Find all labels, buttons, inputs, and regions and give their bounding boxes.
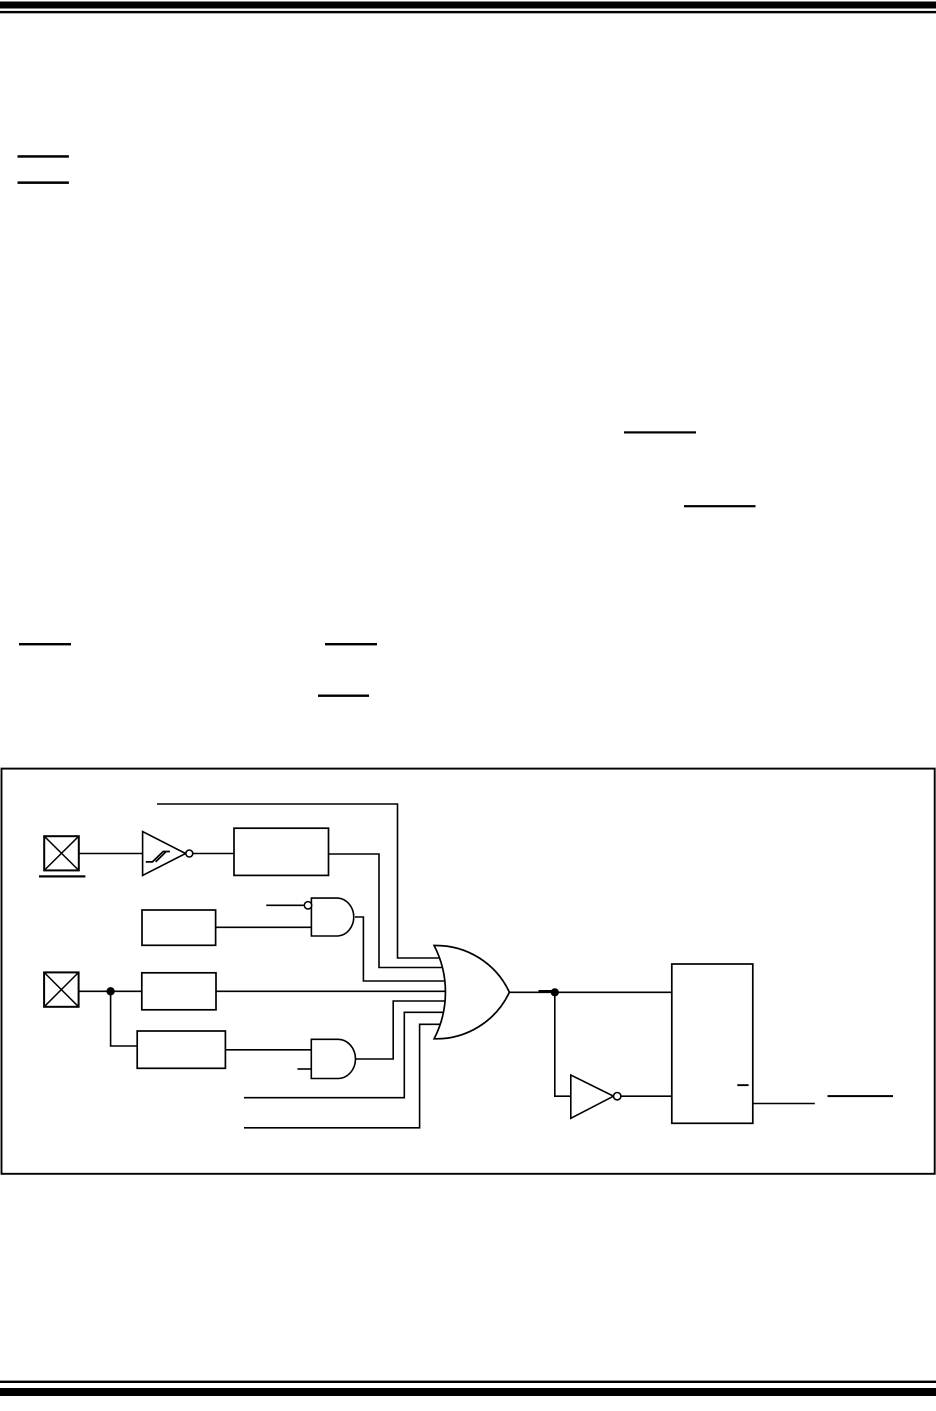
OR gate — [434, 945, 509, 1038]
wire: lower net 1 to OR input 6 — [244, 1012, 450, 1097]
wire: Schmitt output to filter block — [193, 853, 234, 855]
wire: filter block to OR input 2 — [329, 854, 451, 968]
wire: MCLR pad to Schmitt input — [79, 853, 143, 855]
flip-flop: chip reset latch — [672, 964, 753, 1123]
overline (body signal name) — [18, 181, 69, 184]
figure frame — [2, 769, 935, 1174]
NAND gate (inverted top input) — [311, 898, 353, 936]
wire: NAND inverted input A — [266, 904, 304, 906]
wire: OR output to flip-flop S input — [510, 991, 672, 993]
AND gate — [311, 1039, 355, 1078]
wire: flip-flop Q output — [753, 1103, 815, 1105]
overline (Q-bar label inside flip-flop) — [737, 1084, 748, 1086]
footer rule — [0, 1381, 936, 1383]
wire: BOR block to AND input A — [225, 1049, 311, 1051]
wire: block 2 to NAND input B — [216, 926, 312, 928]
wire: junction down to inverter input — [555, 992, 571, 1096]
wire: inverter output to flip-flop R input — [621, 1095, 672, 1097]
wire: top net into OR input 1 — [157, 804, 450, 958]
header thick bar — [0, 2, 936, 9]
block: MCLR filter — [234, 828, 329, 875]
inverter U2 — [571, 1075, 621, 1118]
block: power-on reset — [142, 973, 216, 1010]
overline (note signal name left) — [19, 643, 71, 645]
overline (net label on OR output wire) — [539, 990, 552, 992]
block: brown-out reset — [137, 1031, 225, 1068]
footer thick bar — [0, 1388, 936, 1396]
overline (signal name, paragraph 2) — [624, 431, 696, 433]
junction dot at VDD net — [106, 987, 114, 995]
wire: AND output to OR input 5 — [356, 1001, 450, 1059]
block: sleep/WDT module — [142, 910, 216, 945]
overline (note signal name, line 2) — [318, 695, 369, 697]
wire: NAND output to OR input 3 — [355, 917, 450, 981]
overline (MCLR pad label) — [39, 875, 85, 877]
wire: AND input B stub — [297, 1068, 311, 1070]
pad MCLR (pin symbol) — [44, 836, 79, 870]
junction dot at OR output — [551, 988, 559, 996]
header rule — [0, 11, 936, 13]
wire: junction down to BOR block — [111, 991, 138, 1046]
wire: VDD pad through POR block to OR input 4 — [79, 990, 450, 992]
hysteresis glyph inside U1 — [146, 852, 170, 862]
pad VDD (pin symbol) — [44, 972, 79, 1006]
overline (heading signal name) — [18, 155, 69, 158]
wire: lower net 2 to OR input 7 — [244, 1024, 450, 1128]
Schmitt trigger inverter U1 — [143, 832, 193, 876]
overline (signal name, paragraph 3) — [684, 505, 756, 507]
bubble on NAND input A — [304, 902, 311, 909]
overline (note signal name mid) — [325, 643, 377, 645]
overline (chip reset output label) — [828, 1095, 894, 1097]
